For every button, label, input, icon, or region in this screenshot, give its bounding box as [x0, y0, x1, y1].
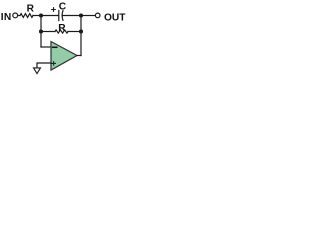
- svg-text:OUT: OUT: [104, 12, 126, 23]
- wire capacitor C to node B: [62, 15, 81, 17]
- wire node A to capacitor C: [41, 15, 58, 17]
- capacitor C plus polarity mark: [52, 8, 56, 12]
- op-amp non-inverting input mark: [52, 62, 56, 65]
- node A2 junction (feedback tap left): [39, 29, 43, 33]
- node B junction: [79, 13, 83, 17]
- resistor R2 (feedback): [55, 30, 68, 33]
- op-amp U1: [51, 42, 77, 71]
- wire node A down to inverting input: [40, 16, 42, 48]
- svg-text:R: R: [58, 23, 66, 34]
- wire R1 to node A: [33, 15, 41, 17]
- svg-text:IN: IN: [1, 12, 12, 23]
- node A junction: [39, 13, 43, 17]
- wire feedback left: [41, 31, 55, 33]
- svg-text:C: C: [59, 1, 67, 12]
- resistor R1 (input): [20, 14, 33, 18]
- node B2 junction (feedback tap right): [79, 29, 83, 33]
- ground: [34, 68, 41, 74]
- svg-text:R: R: [27, 3, 35, 14]
- capacitor C: [59, 11, 63, 21]
- wire to inverting input: [41, 46, 51, 48]
- wire node B to OUT terminal: [81, 15, 95, 17]
- wire op-amp output: [77, 55, 81, 57]
- op-amp inverting input mark: [53, 46, 57, 48]
- output terminal circle: [95, 13, 100, 18]
- wire IN circle to R1: [18, 15, 20, 17]
- input terminal circle: [13, 13, 18, 18]
- wire node B down to op-amp output: [80, 16, 82, 56]
- wire non-inverting input to ground: [37, 63, 51, 68]
- wire feedback right: [68, 31, 81, 33]
